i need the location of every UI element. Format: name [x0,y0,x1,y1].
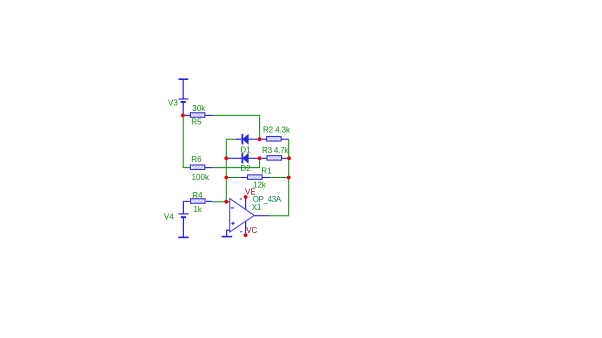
junction dot D2/R3/R6 [258,156,262,160]
pin dot VE [244,195,248,199]
resistor R3 [260,156,289,160]
wire right rail [269,139,289,216]
op-amp VC supply pin [240,222,246,236]
wire R4 to minus input [212,201,226,203]
junction dot R3/right rail [287,156,291,160]
junction dot R4/minus input [224,200,228,204]
wire middle rail D1 corner to opamp minus input [226,139,238,202]
op-amp output wire [254,215,269,217]
svg-text:V3: V3 [168,99,178,108]
svg-text:V4: V4 [164,213,174,222]
voltage source V3 battery [179,79,189,115]
junction dot rail/D2 [224,156,228,160]
svg-text:X1: X1 [252,203,262,212]
svg-text:R1: R1 [261,166,272,175]
junction dot V3/R5 [181,114,185,118]
pin dot VC [244,233,248,237]
op-amp VE supply pin [240,197,246,209]
wire left rail V3 to R6 [183,115,190,167]
wire R5 to D1/R2 junction [213,115,260,139]
voltage source V4 battery [178,201,189,237]
svg-text:VC: VC [246,226,257,235]
svg-text:1k: 1k [193,205,202,214]
junction dot D1/R2 [258,137,262,141]
diode D2 [226,153,259,163]
wire R1 to right rail [270,177,289,179]
diode D1 [236,134,260,144]
svg-text:R6: R6 [191,155,202,164]
op-amp U X1 triangle [230,199,255,233]
svg-text:R4: R4 [192,191,203,200]
junction dot R1/right rail [287,176,291,180]
svg-text:R3 4.7k: R3 4.7k [262,146,289,155]
junction dot rail/R1 [224,176,228,180]
svg-text:D1: D1 [240,145,251,154]
svg-text:100k: 100k [192,173,210,182]
resistor R4 [183,199,212,203]
svg-text:R2 4.3k: R2 4.3k [263,126,291,135]
resistor R2 [260,137,289,141]
svg-text:D2: D2 [240,164,251,173]
svg-text:R5: R5 [191,117,202,126]
resistor R5 [183,113,212,117]
wire R6 to D2/R3 junction [213,158,260,167]
ground at op-amp plus input [222,230,233,236]
resistor R1 [226,175,270,179]
resistor R6 [190,165,212,169]
svg-text:30k: 30k [192,104,206,113]
